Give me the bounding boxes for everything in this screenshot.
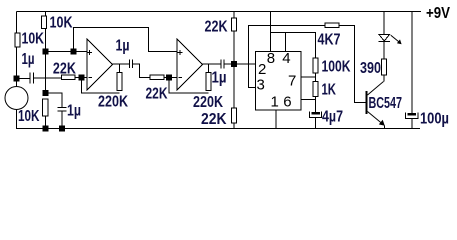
wire ground bottom rail	[16, 128, 420, 130]
svg-text:1µ: 1µ	[212, 70, 227, 87]
op-amp U1 plus sign	[87, 50, 92, 55]
resistor R13 390	[381, 59, 386, 75]
svg-text:100K: 100K	[322, 59, 351, 76]
wire LED to R13	[383, 42, 385, 60]
wire link up-over to U2 plus	[74, 28, 178, 52]
wire R13 to collector	[383, 75, 385, 82]
wire C3 to R6	[132, 64, 150, 78]
svg-text:220K: 220K	[98, 94, 128, 111]
node ground dot R4	[43, 126, 48, 131]
capacitor C4 1u output coupling	[221, 60, 224, 69]
wire emitter to ground	[384, 125, 386, 128]
svg-text:1µ: 1µ	[67, 103, 81, 120]
svg-text:3: 3	[257, 77, 265, 94]
LED arrow	[391, 35, 400, 42]
node U2 minus junction dot	[167, 75, 172, 80]
wire feedback U2	[169, 80, 209, 93]
wire +9V top rail	[17, 11, 422, 13]
resistor R2 10K bias upper	[42, 16, 47, 29]
wire pin6 stub	[301, 99, 316, 101]
svg-text:1K: 1K	[322, 82, 337, 99]
wire divider column top	[233, 12, 235, 19]
node U1 minus junction dot	[79, 75, 84, 80]
wire R7 top to output	[208, 64, 210, 73]
resistor R6 22K stage2	[150, 75, 164, 80]
LED D1	[379, 35, 390, 42]
svg-text:1µ: 1µ	[116, 38, 130, 55]
wire LED column top	[383, 12, 385, 35]
svg-text:1µ: 1µ	[22, 51, 35, 68]
wire 100u column	[411, 12, 413, 114]
node bias cap branch dot	[43, 91, 48, 96]
resistor R5 220K feedback U1	[117, 73, 122, 91]
wire bias column middle crossing signal	[45, 29, 47, 93]
wire pin1 to ground	[275, 110, 277, 129]
svg-text:BC547: BC547	[369, 95, 403, 112]
resistor R10 4K7	[325, 23, 339, 28]
op-amp U2	[177, 39, 203, 90]
microphone MK1	[5, 87, 28, 110]
svg-text:8: 8	[267, 50, 275, 67]
capacitor C1 1u series	[30, 73, 34, 84]
node link dot	[71, 49, 76, 54]
resistor R7 220K feedback U2	[206, 73, 211, 91]
svg-text:10K: 10K	[22, 31, 45, 48]
resistor R1 10K mic bias	[15, 33, 20, 47]
wire R8 to trigger node	[233, 31, 235, 62]
wire 100K to 1K	[315, 73, 317, 82]
svg-text:22K: 22K	[205, 19, 228, 36]
wire pin4 stub	[284, 33, 286, 52]
wire R4 to ground	[45, 116, 47, 129]
capacitor C2 1u bias decoupling	[58, 108, 67, 112]
wire signal mic to C1	[17, 78, 30, 80]
svg-text:10K: 10K	[50, 15, 73, 32]
resistor R3 22K series	[62, 75, 76, 80]
wire bias node to op-amp U1 plus	[46, 51, 88, 53]
svg-text:4K7: 4K7	[318, 32, 341, 49]
wire pin8 to rail	[269, 12, 271, 52]
svg-text:390: 390	[360, 60, 381, 77]
capacitor C3 1u interstage	[129, 60, 132, 69]
op-amp U2 minus sign	[179, 77, 183, 79]
resistor R4 10K bias lower	[43, 99, 49, 116]
wire R6 to U2 minus	[164, 77, 177, 79]
svg-text:2: 2	[258, 61, 266, 78]
wire bias cap branch	[46, 93, 63, 108]
node trigger dot	[231, 62, 236, 67]
resistor R9 22K divider lower	[231, 108, 236, 123]
wire left column mic branch	[16, 12, 18, 34]
resistor R8 22K divider upper	[231, 18, 236, 31]
transistor Q1 collector	[368, 82, 384, 96]
wire R5 top to output	[119, 64, 121, 73]
wire C6 to ground	[411, 119, 413, 129]
svg-text:22K: 22K	[53, 61, 76, 78]
svg-text:4µ7: 4µ7	[322, 109, 343, 126]
resistor R12 1K	[313, 82, 318, 97]
op-amp U1	[87, 39, 113, 90]
IC U3 555 body	[256, 52, 302, 111]
svg-text:100µ: 100µ	[420, 111, 449, 128]
resistor R11 100K	[313, 58, 318, 73]
svg-text:1: 1	[271, 94, 279, 111]
op-amp U1 minus sign	[89, 77, 93, 79]
svg-text:6: 6	[283, 94, 291, 111]
wire C1 to R3	[34, 77, 62, 79]
svg-text:22K: 22K	[146, 86, 168, 103]
svg-text:22K: 22K	[201, 111, 227, 128]
svg-text:220K: 220K	[193, 94, 223, 111]
svg-text:4: 4	[282, 50, 290, 67]
node bias divider dot	[43, 49, 48, 54]
wire U1 output	[113, 63, 130, 65]
wire trigger node down	[233, 67, 235, 109]
wire pin4 vcc link	[270, 33, 315, 59]
wire pin3 output up-over	[249, 26, 326, 88]
wire C2 to ground	[61, 111, 63, 129]
capacitor C6 100u electrolytic	[408, 113, 417, 116]
wire U2 output	[203, 63, 222, 65]
svg-text:10K: 10K	[18, 108, 40, 125]
wire R9 to ground	[233, 123, 235, 129]
wire bias column top	[45, 12, 47, 17]
wire 1K to C5	[315, 97, 317, 113]
wire pin7 stub	[301, 76, 316, 78]
op-amp U2 plus sign	[178, 50, 183, 55]
wire R1 to mic node	[16, 47, 18, 87]
wire C4 to trigger node	[224, 63, 255, 65]
wire C5 to ground	[315, 118, 317, 129]
transistor Q1 emitter	[368, 112, 383, 124]
wire mic bottom to ground	[16, 110, 18, 129]
wire feedback U1	[82, 80, 120, 93]
svg-text:+9V: +9V	[426, 5, 450, 22]
node mic junction dot	[14, 76, 19, 81]
wire 4K7 to base column	[339, 26, 366, 103]
svg-text:7: 7	[288, 73, 296, 90]
node ground dot C2	[60, 126, 65, 131]
capacitor C5 4u7 electrolytic	[312, 112, 321, 115]
transistor Q1 BC547 base bar	[366, 91, 368, 114]
wire R3 to op-amp U1 minus	[75, 77, 87, 79]
